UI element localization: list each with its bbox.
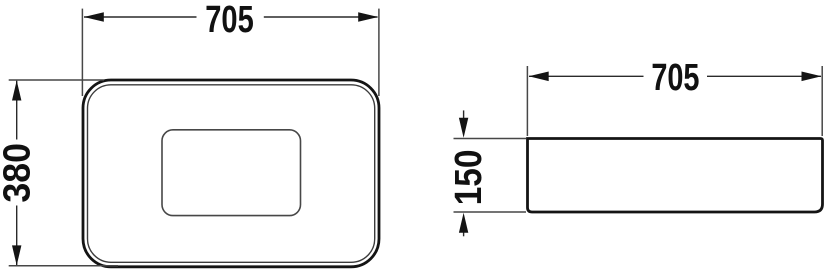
dim 705 (top view) : extension line right <box>378 9 380 96</box>
dim 150 (front view) : bottom arrow tail <box>463 228 465 236</box>
dim 380 (top view) : dimension line lower segment <box>16 206 18 266</box>
svg-text:705: 705 <box>205 0 254 41</box>
dim 380 (top view) : dimension line upper segment <box>16 81 18 140</box>
dim 705 (top view) : right arrow <box>358 12 378 22</box>
dim 705 (top view) : extension line left <box>81 9 83 96</box>
dim 705 (front view) : dimension line left segment <box>529 75 644 77</box>
dim 380 (top view) : extension line bottom <box>9 265 118 267</box>
dim 705 (front view) : extension line left <box>526 66 528 136</box>
dim 705 (top view) : dimension line left segment <box>84 16 197 18</box>
dim 150 (front view) : bottom arrow (points up) <box>459 213 468 233</box>
washbasin front profile <box>528 139 823 213</box>
dim 150 (front view) : top arrow (points down) <box>459 118 468 138</box>
basin bowl <box>162 130 301 216</box>
dim 380 (top view) : top arrow <box>12 81 21 101</box>
svg-text:380: 380 <box>0 143 38 203</box>
dim 150 (front view) : top arrow tail <box>463 110 465 122</box>
dim 705 (top view) : dimension line right segment <box>264 16 378 18</box>
dim 380 (top view) : bottom arrow <box>12 245 21 265</box>
dim 705 (front view) : extension line right <box>821 66 823 136</box>
dim 150 (front view) : extension line bottom <box>454 211 527 213</box>
dim 705 (top view) : left arrow <box>84 12 104 22</box>
dim 150 (front view) : extension line top <box>454 138 527 140</box>
dim 705 (front view) : dimension line right segment <box>707 75 821 77</box>
dim 705 (front view) : right arrow <box>802 72 822 82</box>
dim 705 (front view) : left arrow <box>529 72 549 82</box>
dim 380 (top view) : extension line top <box>9 79 104 81</box>
washbasin outer rim <box>83 80 379 267</box>
svg-text:150: 150 <box>447 150 489 206</box>
svg-text:705: 705 <box>651 56 699 99</box>
washbasin inner rim contour <box>88 85 375 262</box>
